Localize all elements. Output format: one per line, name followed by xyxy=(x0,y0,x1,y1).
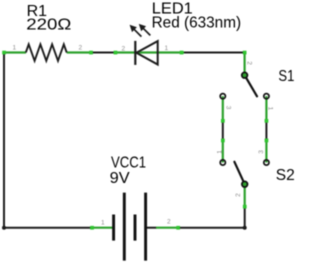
node corner LED-S1 junction xyxy=(243,51,247,55)
pin number LED-1 xyxy=(165,45,169,52)
svg-text:1: 1 xyxy=(165,45,169,52)
resistor R1 xyxy=(4,44,92,61)
switch S2 xyxy=(220,139,269,209)
battery VCC1 xyxy=(90,193,180,261)
node LED pin2 terminal xyxy=(114,51,118,55)
svg-text:220Ω: 220Ω xyxy=(26,17,71,34)
svg-text:1: 1 xyxy=(267,107,274,111)
svg-text:3: 3 xyxy=(225,106,232,110)
svg-text:2: 2 xyxy=(79,45,83,52)
pin number VCC1-1 xyxy=(101,220,105,227)
node S1 pin3 terminal xyxy=(221,119,225,123)
wire bottom left horizontal xyxy=(3,227,91,229)
wire traveler right (S1 pin1 to S2 pin3) xyxy=(265,121,267,140)
value label LED1 xyxy=(152,1,193,18)
pin number S1-3 xyxy=(225,106,232,110)
svg-text:VCC1: VCC1 xyxy=(111,155,146,172)
value label 220ohm xyxy=(26,17,71,34)
wire battery right stub xyxy=(145,227,156,229)
node S2 pin3 terminal xyxy=(265,139,269,143)
node R1 pin2 terminal xyxy=(89,51,93,55)
wire R1 to LED1 xyxy=(90,52,116,54)
svg-text:9V: 9V xyxy=(110,170,130,187)
value label VCC1 xyxy=(111,155,146,172)
node S2 pin2 terminal xyxy=(243,205,247,209)
node bottom-right corner junction xyxy=(243,226,247,230)
node battery pin1 terminal xyxy=(90,226,94,230)
svg-text:1: 1 xyxy=(101,220,105,227)
svg-text:2: 2 xyxy=(122,46,126,53)
LED emission arrow 2 xyxy=(139,24,151,36)
value label R1 xyxy=(27,3,48,20)
svg-text:2: 2 xyxy=(235,193,242,197)
value label 9V xyxy=(110,170,130,187)
pin number R1-2 xyxy=(79,45,83,52)
wire LED1 to S1 common xyxy=(181,52,245,54)
node S1 pin1 terminal xyxy=(265,119,269,123)
value label Red 633nm xyxy=(152,15,242,32)
pin number S2-3 xyxy=(258,150,265,154)
pin number S1-1 xyxy=(267,107,274,111)
svg-text:1: 1 xyxy=(216,150,223,154)
node bottom-left corner junction xyxy=(2,226,6,230)
node battery pin2 terminal xyxy=(176,226,180,230)
node top-left corner junction xyxy=(2,51,6,55)
pin number LED-2 xyxy=(122,46,126,53)
value label S1 xyxy=(278,68,294,85)
node S2 pin1 terminal xyxy=(221,139,225,143)
LED D1 xyxy=(114,41,185,65)
pin number S2-1 xyxy=(216,150,223,154)
switch S1 xyxy=(220,53,269,123)
svg-text:S1: S1 xyxy=(278,68,294,85)
wire left vertical (battery- to R1) xyxy=(3,53,5,228)
svg-text:1: 1 xyxy=(13,44,17,51)
svg-text:Red (633nm): Red (633nm) xyxy=(152,15,242,32)
pin number R1-1 xyxy=(13,44,17,51)
wire S2 common to battery+ xyxy=(179,207,245,228)
pin number S2-2 xyxy=(235,193,242,197)
pin number VCC1-2 xyxy=(167,219,171,226)
svg-text:S2: S2 xyxy=(276,167,295,184)
LED emission arrow 1 xyxy=(130,25,142,37)
svg-text:2: 2 xyxy=(167,219,171,226)
wire traveler left (S1 pin3 to S2 pin1) xyxy=(222,121,224,140)
svg-text:3: 3 xyxy=(258,150,265,154)
pin number S1-2 xyxy=(246,61,253,65)
svg-text:2: 2 xyxy=(246,61,253,65)
node LED pin1 terminal xyxy=(180,51,184,55)
value label S2 xyxy=(276,167,295,184)
